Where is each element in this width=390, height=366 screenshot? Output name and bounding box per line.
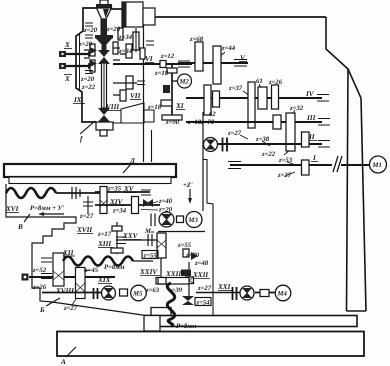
svg-text:М4: М4 (277, 291, 288, 298)
gear 61 (258, 87, 267, 109)
screw XII wavy (63, 257, 133, 266)
motor M3 (186, 212, 202, 228)
gear z37 cluster (248, 82, 255, 128)
spindle flange (96, 4, 112, 8)
svg-text:z=55: z=55 (143, 253, 158, 260)
head small gear b (140, 48, 145, 59)
svg-text:z=34: z=34 (112, 208, 127, 215)
coupling box M3 (177, 216, 184, 223)
bearing IV right (317, 95, 329, 102)
spindle cap (100, 0, 108, 5)
motor M5 (131, 285, 147, 301)
bearing XXV left (116, 237, 126, 244)
gear on XIII (112, 226, 122, 231)
svg-text:IX: IX (73, 96, 82, 104)
arrow left (44, 213, 64, 215)
head vert shaft right (135, 28, 137, 52)
head outline inner line (79, 34, 81, 90)
svg-text:XIII: XIII (97, 240, 111, 248)
gear right of spindle 2 (126, 44, 132, 58)
svg-text:z=20: z=20 (106, 26, 121, 33)
head lower-right cone housing (113, 103, 154, 123)
gear on shaft X lower (90, 60, 95, 72)
gear z62 (204, 85, 211, 115)
svg-text:XVII: XVII (76, 226, 92, 234)
svg-text:Б: Б (39, 306, 45, 314)
head small gear a (118, 28, 123, 40)
bearing XV right (141, 190, 151, 195)
svg-text:z=34: z=34 (118, 48, 133, 55)
shaft to clutch (56, 192, 100, 194)
clutch XVI (72, 187, 80, 199)
pump M5 (102, 286, 116, 300)
shaft XIII vertical (116, 222, 118, 254)
gear z68 (195, 42, 203, 71)
svg-text:М3: М3 (188, 217, 199, 224)
shaft XXI (196, 292, 241, 294)
svg-text:Мт: Мт (144, 228, 154, 235)
gear hatched on XI (163, 85, 170, 93)
label D leader (123, 164, 131, 173)
svg-text:z=22: z=22 (81, 84, 96, 91)
svg-text:XXI: XXI (217, 283, 231, 291)
svg-text:z=18: z=18 (154, 70, 169, 77)
svg-text:z=20: z=20 (80, 76, 95, 83)
bevel pair bottom center (182, 296, 194, 301)
head bearing bars left (85, 23, 93, 74)
svg-text:z=52: z=52 (32, 267, 47, 274)
coupling to M4 (255, 292, 277, 294)
spindle bevel mid (96, 39, 112, 45)
gear z12 on VI (160, 61, 166, 68)
label f leader (80, 121, 95, 134)
clutch XXI (233, 287, 237, 300)
svg-text:III: III (306, 114, 316, 122)
svg-text:z=55: z=55 (177, 242, 192, 249)
svg-text:z=26: z=26 (268, 79, 283, 86)
gear z32 cluster II-III (286, 113, 295, 151)
cone clutch XIV (143, 199, 149, 207)
bearing I left (228, 162, 241, 169)
svg-text:XIX: XIX (97, 276, 111, 284)
svg-text:X: X (64, 75, 70, 83)
svg-text:X: X (64, 41, 70, 49)
shaft to M1 (341, 164, 370, 166)
svg-text:z=44: z=44 (221, 45, 236, 52)
svg-text:В: В (17, 223, 23, 231)
spindle nose (96, 122, 113, 130)
knee outline staircase (6, 184, 146, 316)
shaft XI vertical (171, 64, 173, 118)
svg-text:VIII: VIII (106, 103, 119, 111)
spindle shaft hatched (101, 19, 108, 35)
svg-text:z=53: z=53 (278, 157, 293, 164)
svg-text:М1: М1 (372, 162, 382, 169)
svg-text:z=27: z=27 (227, 130, 242, 137)
coupling M5 (120, 289, 128, 296)
svg-text:62: 62 (209, 111, 216, 118)
x-box gear (186, 277, 194, 284)
svg-text:XVIII: XVIII (55, 287, 74, 295)
svg-text:XI: XI (175, 102, 184, 110)
screw pedestal step (151, 308, 171, 316)
bearing bars head right (146, 41, 154, 45)
shaft to M5 (42, 292, 103, 294)
boxed z54 (195, 298, 211, 306)
gear z18 bottom on XI (161, 100, 172, 106)
shaft XXII vertical (188, 262, 190, 296)
shaft stub XI-M2 (172, 80, 178, 82)
gear z34 lower on VII (126, 76, 133, 89)
machine column contour top line (155, 16, 326, 18)
svg-text:z=20: z=20 (83, 27, 98, 34)
screw XVI wavy (6, 188, 56, 198)
machine column right contour outer (347, 69, 367, 311)
svg-text:z=32: z=32 (289, 105, 304, 112)
svg-text:z=68: z=68 (189, 36, 204, 43)
svg-text:IV: IV (305, 90, 315, 98)
clutch on II (223, 138, 228, 152)
gear z35 tall (100, 187, 107, 214)
shaft I (230, 164, 332, 166)
shaft X lower (60, 65, 92, 67)
head shaft seg VII (113, 83, 137, 95)
boxed z55 (142, 251, 158, 259)
label leader ticks (196, 43, 296, 176)
motor M2 (178, 74, 192, 88)
bearing V right (234, 60, 247, 67)
svg-text:XV: XV (123, 185, 135, 193)
cone gear (191, 252, 198, 260)
svg-text:z=27: z=27 (63, 305, 78, 312)
svg-text:z=12: z=12 (160, 53, 175, 60)
svg-text:XIV: XIV (109, 198, 124, 206)
svg-text:+Z': +Z' (183, 182, 193, 189)
saddle platform (146, 316, 357, 327)
head shaft stubs (84, 48, 126, 60)
bearing XVII (83, 202, 93, 206)
pump on II (204, 138, 218, 152)
svg-text:XXII: XXII (192, 271, 208, 279)
clutch before pump M3 (151, 214, 155, 227)
pump XXI (240, 286, 254, 300)
shaft II (212, 143, 322, 145)
svg-text:z=37: z=37 (228, 85, 243, 92)
svg-text:Р=8мм + У': Р=8мм + У' (30, 205, 64, 212)
svg-text:z=90: z=90 (165, 119, 180, 126)
gear z44 (213, 46, 221, 84)
svg-text:61: 61 (256, 78, 263, 85)
table ledge (9, 177, 171, 184)
shaft III (186, 121, 322, 123)
svg-text:z=27: z=27 (197, 285, 212, 292)
gear on shaft X upper (90, 44, 95, 56)
bearing cap XVIII (22, 274, 29, 281)
head top small box (143, 8, 155, 25)
svg-text:z=26: z=26 (32, 284, 47, 291)
svg-text:z=63: z=63 (145, 287, 160, 294)
label B(cyr) leader (46, 298, 60, 306)
svg-text:z=17: z=17 (97, 231, 112, 238)
knee/saddle right enclosure (202, 112, 204, 211)
shaft XIV (95, 204, 160, 206)
gear z90 bar (162, 115, 182, 120)
shaft V (178, 62, 248, 64)
spindle bevel cone upper (97, 8, 112, 19)
shaft VI (113, 63, 192, 65)
label V(cyr) leader (24, 214, 30, 222)
svg-text:z=40: z=40 (158, 198, 173, 205)
svg-text:z=20: z=20 (78, 41, 93, 48)
spindle nose square (100, 130, 107, 136)
axis arrow Z (189, 189, 191, 200)
gear bar XIII bottom (111, 248, 123, 253)
gear z27 on I (302, 160, 310, 175)
bearing II right (318, 141, 330, 148)
shaft XVIII (29, 276, 115, 278)
pump at M3 (159, 212, 174, 227)
svg-text:z=54: z=54 (196, 300, 211, 307)
gear stack XIX (76, 268, 86, 299)
M3 housing lines (158, 231, 205, 233)
svg-text:XXIV: XXIV (139, 268, 158, 276)
table bar D (4, 164, 176, 177)
gear z78 (213, 91, 220, 107)
svg-text:z=22: z=22 (261, 151, 276, 158)
gear stack center (157, 233, 166, 258)
shaft X upper (60, 53, 92, 55)
machine column right contour inner (326, 17, 348, 311)
bearing III right (318, 119, 330, 126)
column guide channel (203, 160, 213, 316)
svg-text:А: А (60, 358, 66, 366)
svg-text:М5: М5 (132, 291, 143, 298)
gear z18 top on XI (167, 68, 177, 73)
column left edge vertical (143, 25, 145, 162)
head small gear c (120, 90, 126, 101)
svg-text:z=70: z=70 (185, 252, 200, 259)
motor M4 (275, 285, 291, 301)
gear right of spindle 1 (113, 42, 118, 54)
spindle shaft long (102, 63, 107, 108)
label A leader (66, 347, 76, 357)
spindle head outline (76, 8, 96, 122)
shaft XVII vertical (87, 196, 89, 214)
motor M1 (370, 156, 387, 173)
shaft IV (186, 97, 322, 99)
svg-text:VII: VII (130, 92, 141, 100)
clutch M5 (94, 288, 98, 299)
saddle left step (144, 316, 160, 332)
head top edge right (109, 8, 122, 10)
vertical screw wavy (167, 283, 175, 326)
column left inner vertical (151, 130, 153, 162)
shaft XXV (116, 239, 163, 241)
bearing bars under (137, 81, 145, 85)
small gear upper (183, 249, 189, 257)
spindle shaft seg (102, 44, 107, 50)
bearing VI right (178, 61, 190, 67)
svg-text:z=38: z=38 (255, 136, 270, 143)
clutch XXV (148, 234, 152, 246)
gear mesh arrow 1 (90, 47, 97, 54)
belt drive symbol (333, 156, 342, 172)
gear mesh arrow 2 (90, 60, 97, 67)
svg-text:z=27: z=27 (79, 213, 94, 220)
bearing bars (41, 258, 52, 279)
head top box (122, 2, 143, 27)
svg-text:z=18: z=18 (147, 104, 162, 111)
bevel pair mid (98, 50, 110, 57)
shaft XV (95, 191, 150, 193)
svg-text:I: I (312, 154, 316, 162)
base bed (57, 332, 364, 357)
hatched gear XXII (181, 270, 191, 277)
spindle mid flange (95, 35, 113, 39)
svg-text:z=35: z=35 (107, 186, 122, 193)
gear z38 on III (273, 115, 281, 129)
svg-text:VI: VI (145, 55, 153, 63)
svg-text:z=48: z=48 (194, 260, 209, 267)
svg-text:II: II (308, 133, 315, 141)
gear z53 on II (302, 132, 310, 147)
gear z26 (272, 85, 279, 109)
gear on XIV (132, 197, 139, 214)
bevel pair bottom (98, 108, 110, 115)
connector stack to bar gear (160, 258, 162, 278)
svg-text:z=27: z=27 (277, 172, 292, 179)
gear z34 cluster (133, 32, 139, 50)
gear bar z63 (156, 278, 189, 285)
gear stack z52/z26 (53, 253, 64, 286)
svg-text:Р=8мм: Р=8мм (176, 323, 197, 330)
svg-text:XXIII: XXIII (165, 270, 184, 278)
svg-text:XVI: XVI (5, 205, 19, 213)
svg-text:Р=8мм: Р=8мм (104, 264, 125, 271)
svg-text:XXV: XXV (122, 232, 139, 240)
svg-text:М2: М2 (179, 79, 190, 86)
svg-text:z=34: z=34 (118, 34, 133, 41)
